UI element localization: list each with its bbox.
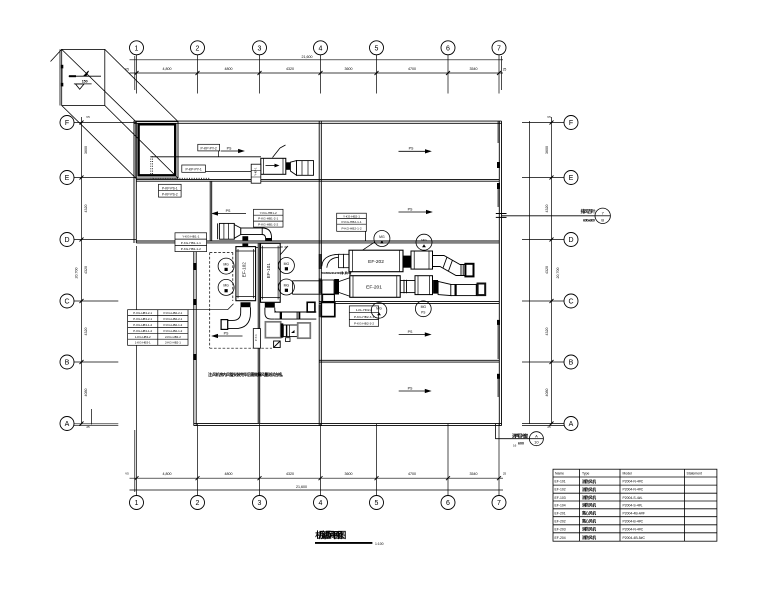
svg-text:MG: MG <box>284 262 290 266</box>
svg-text:600x600: 600x600 <box>583 217 596 222</box>
bottom extension line left <box>134 430 136 492</box>
svg-text:A: A <box>65 421 70 428</box>
damper circle MG f <box>416 234 432 250</box>
svg-text:P-Y-1: P-Y-1 <box>254 334 258 341</box>
left exterior wall lower <box>193 241 195 426</box>
svg-text:3: 3 <box>258 500 262 507</box>
svg-text:21,600: 21,600 <box>302 55 313 59</box>
grid line 4 vertical <box>320 55 322 94</box>
top dimension line lower <box>130 72 504 74</box>
svg-text:MG: MG <box>421 239 427 243</box>
svg-text:P-KG-HB2-3-2: P-KG-HB2-3-2 <box>354 322 374 326</box>
svg-text:P2004-S-4#L: P2004-S-4#L <box>623 503 643 507</box>
dimension numbers top <box>125 55 506 72</box>
left grid line B <box>74 361 118 363</box>
svg-text:EF-203: EF-203 <box>555 527 566 531</box>
svg-text:V5: V5 <box>86 115 90 119</box>
fan unit EF-101 <box>261 243 281 302</box>
svg-text:P-KG-HB2-1-2: P-KG-HB2-1-2 <box>341 227 361 231</box>
arrow PS room F-E left <box>221 150 243 152</box>
svg-text:4320: 4320 <box>84 328 88 336</box>
dimension numbers bottom <box>125 472 506 490</box>
svg-text:P2004-4B-5#C: P2004-4B-5#C <box>623 536 646 540</box>
svg-text:4320: 4320 <box>286 472 294 476</box>
bubble 4 <box>314 41 328 55</box>
cone E-D <box>234 225 241 239</box>
svg-text:1-KG-HB3-1: 1-KG-HB3-1 <box>135 341 151 345</box>
svg-text:3600: 3600 <box>345 472 353 476</box>
svg-text:注:风机房内风管安装完毕后需做漏风量测试合格。: 注:风机房内风管安装完毕后需做漏风量测试合格。 <box>208 371 286 377</box>
partition wall x259 <box>257 243 259 424</box>
duct E-D horizontal <box>241 228 262 235</box>
leader flag EF-101 <box>280 246 288 255</box>
dashed service boundary <box>210 247 400 348</box>
label box Y-KG-HB1-2 <box>254 209 284 227</box>
duct bottom line <box>205 170 251 172</box>
svg-text:EF-101: EF-101 <box>266 263 271 279</box>
partition wall x210 <box>209 181 211 241</box>
interior wall row E <box>136 178 499 180</box>
table leader line <box>188 304 234 310</box>
svg-text:P2004-N-4#C: P2004-N-4#C <box>623 480 644 484</box>
duct left EF-102 <box>221 320 228 330</box>
right grid line B <box>522 361 564 363</box>
svg-text:A: A <box>535 433 538 438</box>
svg-text:600: 600 <box>518 441 524 445</box>
exhaust fan room F-E body <box>261 158 286 174</box>
bubble 5 <box>370 41 384 55</box>
svg-text:P-KP-PS-1: P-KP-PS-1 <box>162 186 178 190</box>
svg-text:P-KG-HB1-2-2: P-KG-HB1-2-2 <box>258 223 278 227</box>
column mark left wall <box>193 263 196 270</box>
svg-text:150: 150 <box>82 80 88 84</box>
grid line 1 vertical <box>136 55 138 94</box>
label table fan codes <box>128 310 188 346</box>
svg-text:EF-103: EF-103 <box>555 496 566 500</box>
bottom louver detail bubble <box>529 432 543 446</box>
svg-text:D: D <box>64 237 69 244</box>
bubble 2 <box>191 41 205 55</box>
svg-text:MG: MG <box>223 284 229 288</box>
svg-text:P-KG-HB3-1-2: P-KG-HB3-1-2 <box>133 329 152 333</box>
dimension numbers right <box>545 115 560 429</box>
top dimension line upper <box>130 59 504 61</box>
svg-text:2: 2 <box>196 45 200 52</box>
left grid line F <box>74 122 137 124</box>
flex EF-202 outlet <box>403 256 411 268</box>
duct to wall from EF-101 <box>274 312 316 319</box>
svg-text:5: 5 <box>375 500 379 507</box>
svg-text:V5: V5 <box>547 115 551 119</box>
svg-text:Y-KP-1: Y-KP-1 <box>253 167 257 176</box>
svg-text:Y-KG-HB1-2: Y-KG-HB1-2 <box>260 211 277 215</box>
svg-text:500x320排风管: 500x320排风管 <box>322 270 352 275</box>
damper circle MG d <box>278 279 294 295</box>
fan box left gray <box>265 322 280 338</box>
svg-text:P-KP-PY-2: P-KP-PY-2 <box>201 146 217 150</box>
svg-text:Model: Model <box>623 472 632 476</box>
svg-text:A: A <box>569 421 574 428</box>
slope arrow in roof box <box>69 75 101 77</box>
left exterior wall upper <box>133 121 135 243</box>
svg-text:P2004-S-4#L: P2004-S-4#L <box>623 496 643 500</box>
svg-text:E: E <box>65 175 70 182</box>
bubble 3 <box>253 41 267 55</box>
fan F-E leader <box>273 148 281 158</box>
svg-text:3: 3 <box>258 45 262 52</box>
hidden duct dotted along wall E <box>153 177 210 179</box>
damper circle MG b <box>218 279 234 295</box>
svg-text:B: B <box>569 360 574 367</box>
bubble 7 <box>492 41 506 55</box>
damper circle MG h <box>415 301 431 317</box>
label P-KP-PY-1 <box>182 165 206 172</box>
label box 1-KL-HD2-3 <box>349 306 378 326</box>
svg-text:4,800: 4,800 <box>163 472 172 476</box>
left grid line D <box>74 239 137 241</box>
bottom exterior wall <box>194 422 502 424</box>
S-duct EF-202 <box>433 256 466 276</box>
svg-text:P-KP-PY-1: P-KP-PY-1 <box>185 167 201 171</box>
svg-text:离心风机: 离心风机 <box>582 519 596 524</box>
svg-text:消防风机: 消防风机 <box>582 535 596 540</box>
bubbles left <box>60 116 74 130</box>
svg-text:离心风机: 离心风机 <box>582 511 596 516</box>
svg-text:1: 1 <box>135 45 139 52</box>
grid line 2 vertical <box>197 55 199 94</box>
svg-text:D: D <box>568 237 573 244</box>
duct line to fan inlet <box>151 156 261 158</box>
arrow PS room E-D left <box>213 213 246 215</box>
svg-text:MG: MG <box>376 307 382 311</box>
svg-text:2-KG-HB2-1: 2-KG-HB2-1 <box>165 341 181 345</box>
shaft room thick lining <box>139 124 176 175</box>
fan EF-201 <box>350 276 400 298</box>
bottom louver annotation leader <box>495 424 529 439</box>
svg-text:PS: PS <box>409 147 414 151</box>
right exterior wall <box>498 121 500 426</box>
right grid line A <box>522 423 564 425</box>
svg-text:4,800: 4,800 <box>163 67 172 71</box>
iso connector diagonal BR <box>105 106 178 179</box>
duct lining right wall segments <box>497 121 499 143</box>
grid line 7 vertical <box>498 55 500 94</box>
svg-text:E: E <box>569 175 574 182</box>
EF-201 suction duct through wall <box>293 281 323 294</box>
svg-text:1-KG-HB3-2: 1-KG-HB3-2 <box>135 335 151 339</box>
fan box right gray <box>298 323 311 338</box>
svg-text:3540: 3540 <box>470 67 478 71</box>
flex into EF-101 <box>266 238 272 241</box>
svg-text:P-KG-HB2-2-1: P-KG-HB2-2-1 <box>164 317 183 321</box>
silencer striped E-D <box>218 223 235 239</box>
label P-KP-PS box <box>159 184 182 197</box>
arrow PS room F-E right <box>399 150 431 152</box>
svg-text:1: 1 <box>135 500 139 507</box>
svg-text:20,700: 20,700 <box>75 268 79 279</box>
outlet box EF-202 <box>465 264 473 277</box>
flex connector dark <box>286 162 291 170</box>
flex dark EF-201 <box>433 280 438 294</box>
svg-text:MG: MG <box>223 262 229 266</box>
svg-text:4080: 4080 <box>545 389 549 397</box>
svg-text:7: 7 <box>497 45 501 52</box>
svg-text:P-KG-HB1-1-1: P-KG-HB1-1-1 <box>181 241 201 245</box>
inlet box Y-KP-1 <box>251 164 261 183</box>
svg-text:MG: MG <box>284 283 290 287</box>
bubbles right <box>564 116 578 130</box>
svg-text:消防风机: 消防风机 <box>582 527 596 532</box>
small stub below <box>286 338 290 342</box>
svg-text:Name: Name <box>555 472 564 476</box>
svg-text:P-KG-HB1-2-1: P-KG-HB1-2-1 <box>258 217 278 221</box>
svg-text:21,600: 21,600 <box>296 485 307 489</box>
right grid line F <box>522 122 564 124</box>
svg-text:25: 25 <box>503 68 507 72</box>
svg-text:4700: 4700 <box>408 67 416 71</box>
duct stub above wall C <box>323 295 335 302</box>
svg-text:P-KG-HB2-1-1: P-KG-HB2-1-1 <box>341 220 361 224</box>
dimension tick marks <box>80 71 554 480</box>
svg-text:排风百叶: 排风百叶 <box>581 208 597 215</box>
svg-text:4320: 4320 <box>545 266 549 274</box>
svg-text:25: 25 <box>503 472 507 476</box>
arrow PS room E-D right <box>399 211 432 213</box>
svg-text:P-KP-PS-2: P-KP-PS-2 <box>162 193 178 197</box>
label P-KP-PY-2 <box>198 144 220 156</box>
right grid line C <box>522 300 564 302</box>
svg-text:P2004-N-4#C: P2004-N-4#C <box>623 527 644 531</box>
bubbles bottom <box>130 496 144 510</box>
svg-text:4320: 4320 <box>84 266 88 274</box>
svg-text:Y-KG-HB2-1: Y-KG-HB2-1 <box>343 215 360 219</box>
svg-text:PS: PS <box>226 209 231 213</box>
grid line 3 vertical <box>259 55 261 94</box>
label box Y-KG-HB1-1 <box>175 233 207 252</box>
svg-text:PS: PS <box>408 386 413 390</box>
svg-text:PS: PS <box>408 207 413 211</box>
svg-text:C: C <box>64 299 69 306</box>
fan arrow <box>266 165 277 167</box>
svg-text:4700: 4700 <box>408 472 416 476</box>
grid line 5 vertical <box>376 55 378 94</box>
svg-text:机房通风平面图: 机房通风平面图 <box>315 529 346 540</box>
svg-text:2-KG-HB2-2: 2-KG-HB2-2 <box>165 335 181 339</box>
arrow PS room C-B right <box>399 334 430 336</box>
label box Y-KG-HB2-1 <box>337 213 367 231</box>
svg-text:B: B <box>65 360 70 367</box>
damper blobs right wall <box>497 162 500 168</box>
svg-text:4320: 4320 <box>286 67 294 71</box>
interior wall row B right <box>319 359 499 361</box>
silencer cone F-E <box>290 161 296 176</box>
svg-text:4800: 4800 <box>225 67 233 71</box>
arrow PS fan room <box>213 335 243 337</box>
interior wall row D <box>136 240 499 242</box>
svg-text:PS: PS <box>421 310 425 314</box>
top extension line left <box>134 56 136 90</box>
bottom dimension line upper <box>130 477 504 479</box>
svg-text:3540: 3540 <box>470 472 478 476</box>
bubble 6 <box>441 41 455 55</box>
svg-text:3600: 3600 <box>345 67 353 71</box>
svg-text:16: 16 <box>513 444 517 448</box>
svg-text:4: 4 <box>319 45 323 52</box>
level triangle <box>76 84 85 89</box>
damper circle MG c <box>278 258 294 274</box>
square duct through wall C4 <box>321 302 335 316</box>
leader flag EF-102 <box>236 247 243 254</box>
dark bar <box>281 323 284 337</box>
svg-text:6: 6 <box>446 45 450 52</box>
svg-text:消防风机: 消防风机 <box>582 487 596 492</box>
svg-text:Type: Type <box>582 472 589 476</box>
elbow below EF-101 <box>265 308 280 320</box>
svg-text:4: 4 <box>319 500 323 507</box>
interior wall grid 4 vertical <box>318 121 320 426</box>
svg-text:P-KG-HB3-2-1: P-KG-HB3-2-1 <box>133 311 152 315</box>
svg-text:Statement: Statement <box>687 472 703 476</box>
dimension numbers left <box>75 115 91 429</box>
left grid line E <box>74 177 137 179</box>
P-Y-1 vertical box <box>253 329 260 349</box>
svg-text:MG: MG <box>421 305 427 309</box>
svg-text:EF-101: EF-101 <box>555 480 566 484</box>
svg-text:P2004-N-4#C: P2004-N-4#C <box>623 488 644 492</box>
right louver detail bubble <box>595 208 610 223</box>
svg-text:10: 10 <box>534 440 539 445</box>
svg-text:EF-204: EF-204 <box>555 536 566 540</box>
svg-text:PS: PS <box>227 146 232 150</box>
grille mark grid4 wall <box>319 254 322 269</box>
damper circle MG g <box>371 303 387 319</box>
elbow below EF-102 <box>228 307 251 328</box>
svg-text:20,700: 20,700 <box>556 268 560 279</box>
svg-text:B: B <box>601 217 604 222</box>
inlet from wall <box>322 280 334 294</box>
svg-text:PS: PS <box>224 331 229 335</box>
svg-text:P-KG-HB2-3-1: P-KG-HB2-3-1 <box>354 315 374 319</box>
silencer EF-201 <box>415 276 433 295</box>
duct EF-201 right <box>451 285 478 296</box>
fan EF-202 <box>349 250 403 272</box>
roof box edge ticks <box>61 65 63 69</box>
elbow from wall grille <box>322 254 340 267</box>
flex below EF-101 <box>265 303 275 308</box>
svg-text:EF-102: EF-102 <box>242 262 247 278</box>
svg-text:4800: 4800 <box>225 472 233 476</box>
svg-text:P-KG-HB2-2-1: P-KG-HB2-2-1 <box>164 311 183 315</box>
svg-text:2: 2 <box>196 500 200 507</box>
iso extension tail <box>51 49 62 61</box>
flex joints EF-201 outlet <box>400 280 415 294</box>
svg-text:EF-201: EF-201 <box>555 511 566 515</box>
svg-text:5: 5 <box>375 45 379 52</box>
hidden duct dotted vertical in shaft <box>150 156 152 178</box>
svg-text:EF-201: EF-201 <box>366 285 382 291</box>
svg-text:4080: 4080 <box>84 389 88 397</box>
svg-text:25: 25 <box>547 425 551 429</box>
elbow E-D down <box>262 228 271 241</box>
svg-text:消声百叶窗: 消声百叶窗 <box>512 432 529 439</box>
bottom dimension line lower <box>130 489 504 491</box>
roof duct box <box>62 49 105 105</box>
EF-202 leader flag <box>363 242 375 250</box>
svg-text:4320: 4320 <box>84 205 88 213</box>
svg-text:3600: 3600 <box>84 146 88 154</box>
flex below EF-102 <box>241 302 251 307</box>
damper circle MG e <box>374 231 390 247</box>
bubble 1 <box>130 41 144 55</box>
branch flex into EF-102 <box>242 236 248 240</box>
svg-text:EF-202: EF-202 <box>555 519 566 523</box>
interior wall row C right <box>319 301 499 303</box>
svg-text:F: F <box>569 120 573 127</box>
arrow in mid section <box>291 330 295 333</box>
svg-text:EF-102: EF-102 <box>555 488 566 492</box>
slashed square <box>274 341 281 348</box>
svg-text:C: C <box>568 299 573 306</box>
svg-text:P-KG-HB3-1-2: P-KG-HB3-1-2 <box>133 323 152 327</box>
svg-text:消防风机: 消防风机 <box>582 503 596 508</box>
svg-text:MG: MG <box>379 235 385 239</box>
svg-text:消防风机: 消防风机 <box>582 495 596 500</box>
svg-text:6: 6 <box>446 500 450 507</box>
svg-text:P-KG-HB2-1-2: P-KG-HB2-1-2 <box>164 323 183 327</box>
right grid line E <box>522 177 564 179</box>
svg-text:Y-KG-HB1-1: Y-KG-HB1-1 <box>182 235 199 239</box>
svg-text:P-KG-HB3-2-1: P-KG-HB3-2-1 <box>133 317 152 321</box>
svg-text:4320: 4320 <box>545 328 549 336</box>
svg-text:1:100: 1:100 <box>375 542 384 546</box>
iso connector diagonal BL <box>62 106 136 179</box>
left dimension line vertical <box>81 117 83 425</box>
top extension line right <box>501 56 503 90</box>
svg-text:P-KG-HB2-1-2: P-KG-HB2-1-2 <box>164 329 183 333</box>
top exterior wall <box>134 120 502 122</box>
damper circle MG a <box>218 258 234 274</box>
svg-text:F: F <box>65 120 69 127</box>
left grid line C <box>74 300 118 302</box>
cone EF-201 <box>438 281 451 295</box>
arrow PS room B-A right <box>399 390 430 392</box>
svg-text:EF-202: EF-202 <box>368 259 384 265</box>
svg-text:消防风机: 消防风机 <box>582 479 596 484</box>
grid bubbles top <box>60 41 578 510</box>
right grid line D <box>522 239 564 241</box>
shaft room outer <box>136 122 178 179</box>
right extension line <box>529 121 531 424</box>
mid cone section <box>283 325 297 337</box>
outlet box EF-201 <box>478 284 486 296</box>
left grid line A <box>74 423 118 425</box>
right louver annotation leader <box>502 215 596 217</box>
riser box at wall <box>307 302 315 312</box>
silencer striped F-E <box>297 161 314 176</box>
svg-text:P-KG-HB1-1-2: P-KG-HB1-1-2 <box>181 247 201 251</box>
svg-text:V5: V5 <box>125 472 129 476</box>
svg-text:7: 7 <box>497 500 501 507</box>
right dimension line vertical <box>551 117 553 425</box>
svg-text:25: 25 <box>86 425 90 429</box>
wall fill marks <box>193 121 500 397</box>
iso connector diagonal TL <box>62 49 136 121</box>
svg-text:P2004-4B-A#F: P2004-4B-A#F <box>623 511 645 515</box>
iso connector diagonal TR <box>105 49 178 121</box>
svg-text:EF-104: EF-104 <box>555 503 566 507</box>
fan unit EF-102 <box>236 247 256 301</box>
svg-text:PS: PS <box>408 330 413 334</box>
